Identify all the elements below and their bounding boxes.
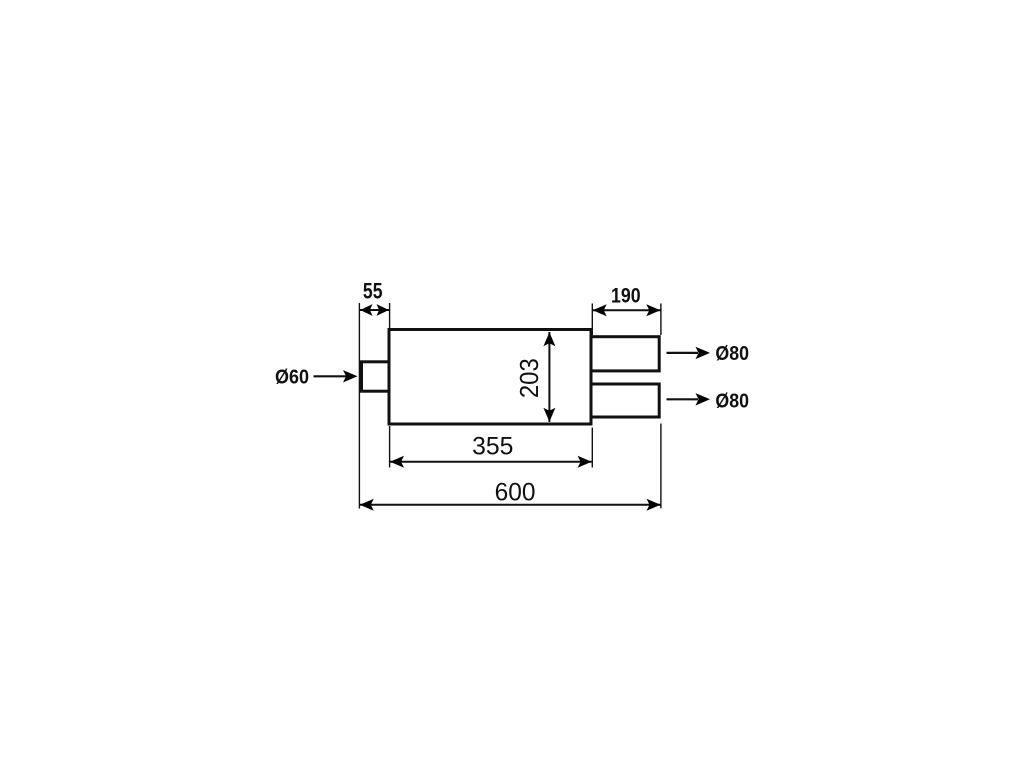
leader arrow outlet upper	[667, 352, 699, 354]
svg-text:55: 55	[363, 280, 383, 304]
dimension 600 line	[360, 504, 661, 506]
svg-text:Ø80: Ø80	[715, 390, 749, 412]
leader arrow inlet	[314, 375, 347, 377]
outlet pipe upper	[591, 337, 659, 371]
dimension 355 line	[390, 461, 592, 463]
extension line D (far right, x=660.8)	[660, 304, 662, 336]
extension line C (body right, x=592.3)	[591, 304, 593, 336]
extension line A (left, x=359.4)	[358, 303, 360, 509]
svg-text:600: 600	[495, 479, 536, 506]
svg-text:Ø80: Ø80	[715, 343, 749, 365]
dimension 203 line (vertical)	[548, 332, 550, 422]
extension line B (body left, x=389.6)	[389, 303, 391, 328]
leader arrow outlet lower	[667, 398, 699, 400]
muffler body	[389, 330, 591, 425]
svg-text:203: 203	[515, 358, 544, 398]
svg-text:355: 355	[472, 432, 513, 460]
dimension 190 line	[593, 309, 661, 311]
outlet pipe lower	[591, 384, 659, 417]
svg-text:Ø60: Ø60	[275, 367, 309, 389]
inlet pipe	[362, 362, 390, 391]
dimension 55 line	[360, 309, 389, 311]
svg-text:190: 190	[611, 284, 641, 308]
